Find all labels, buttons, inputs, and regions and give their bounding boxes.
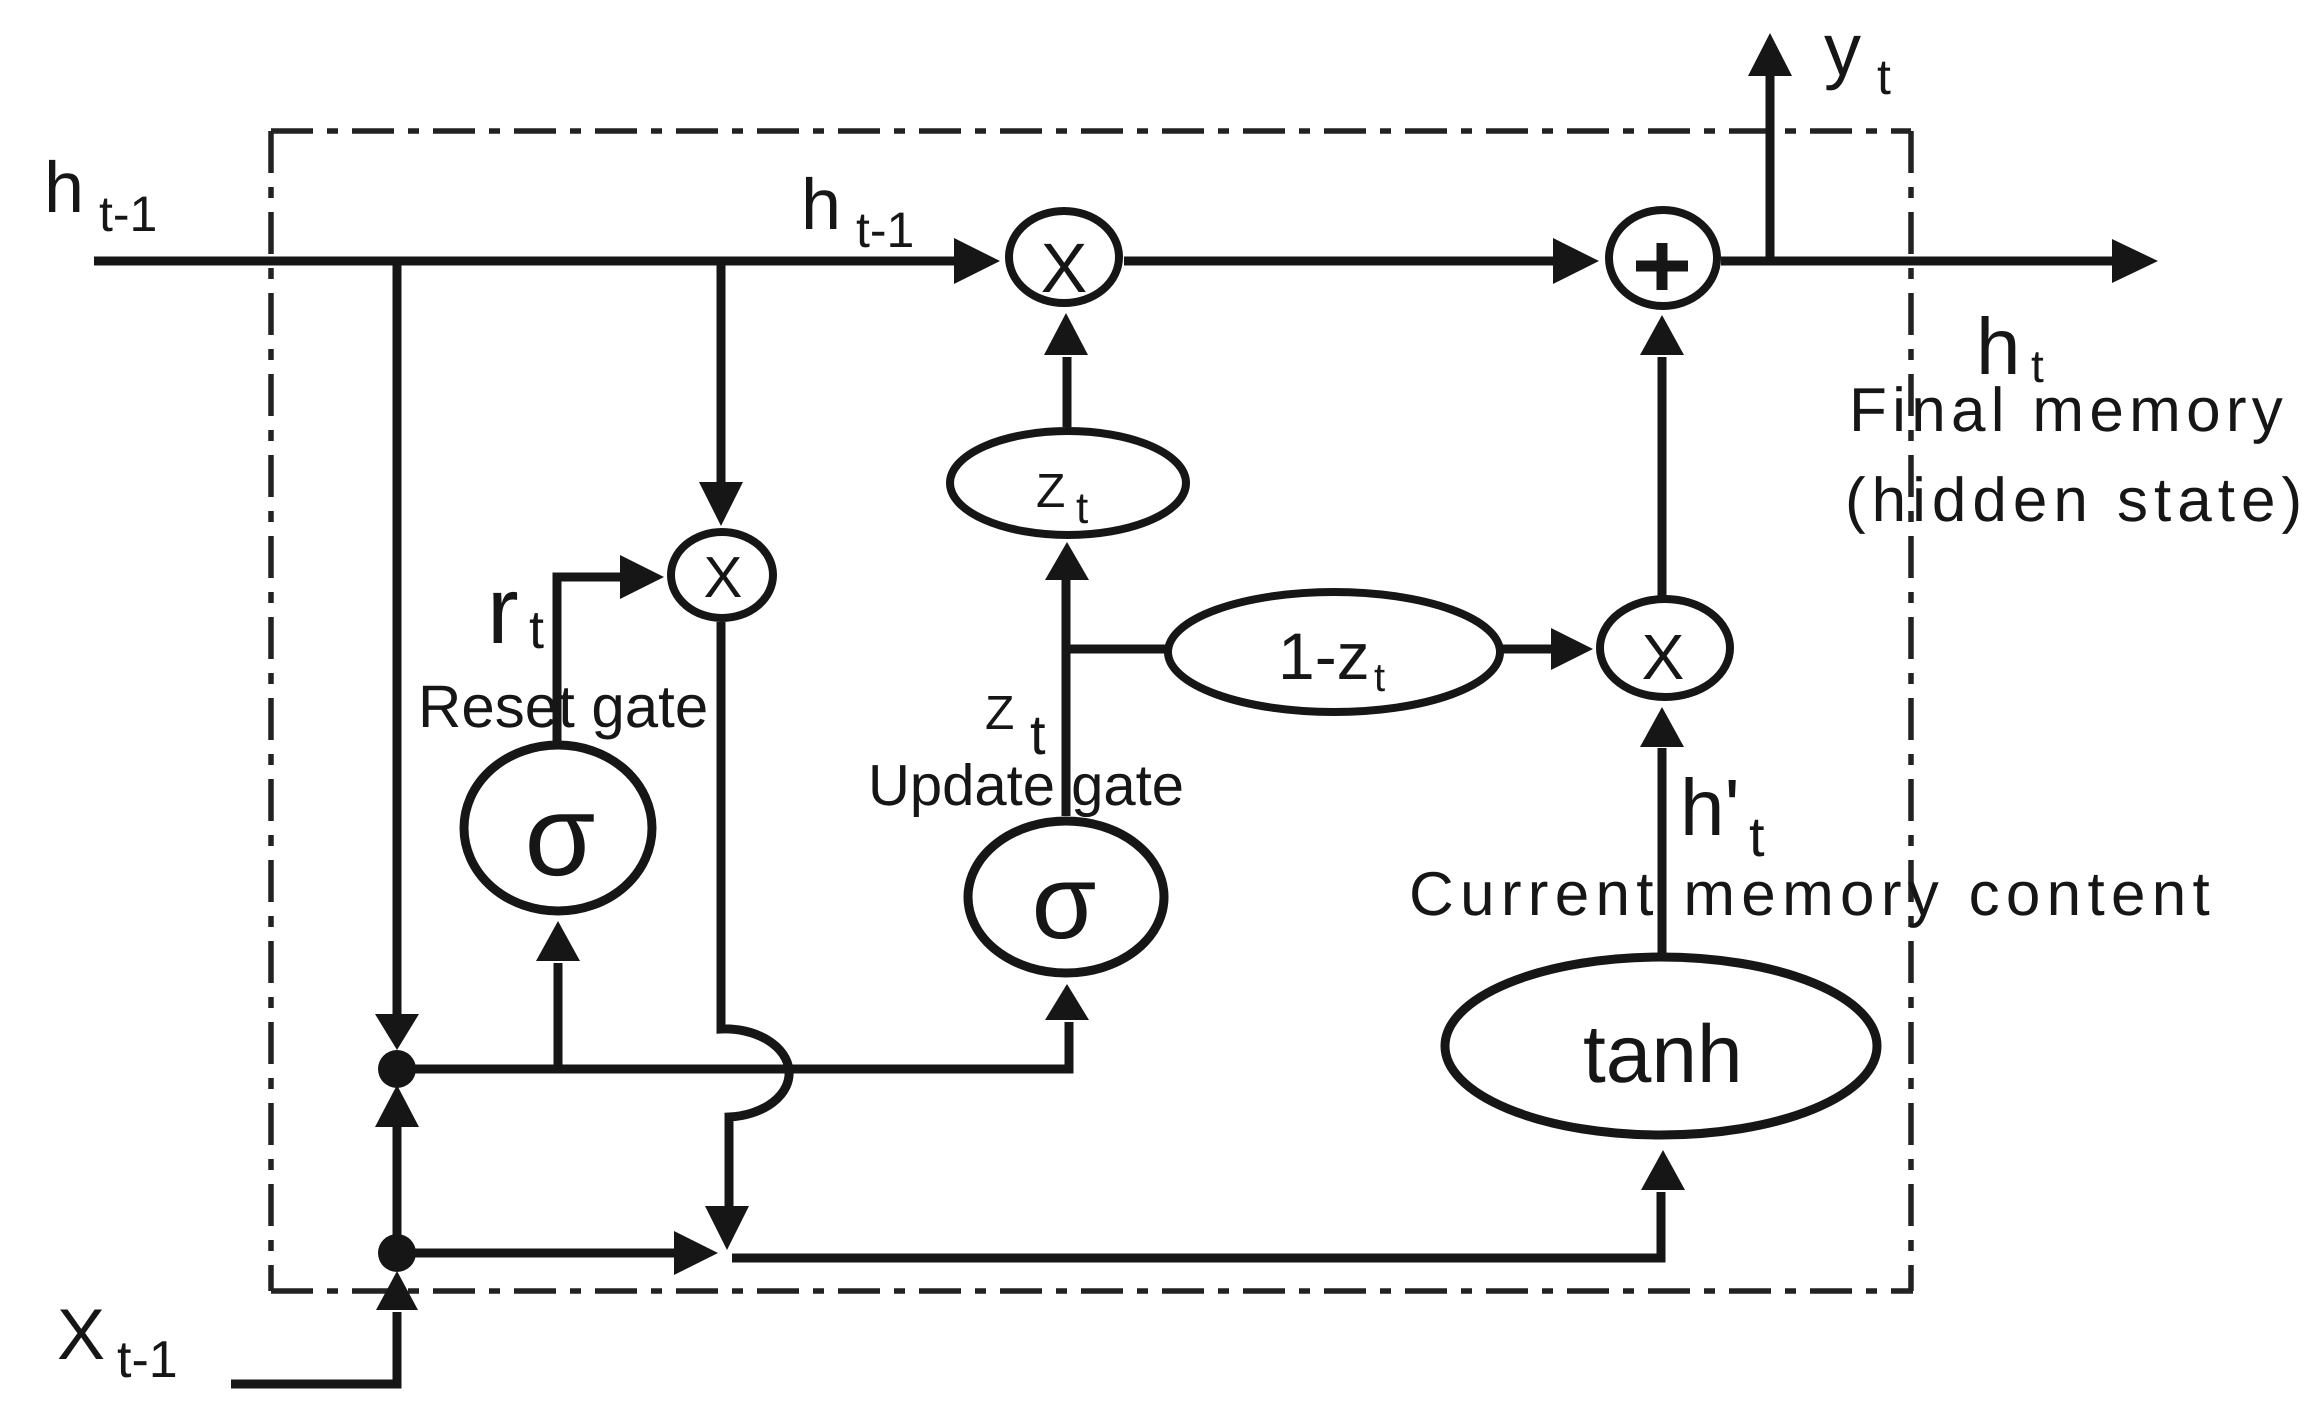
svg-text:h: h xyxy=(44,148,84,228)
svg-text:t: t xyxy=(1749,805,1765,868)
svg-text:t: t xyxy=(529,600,544,660)
svg-text:t: t xyxy=(1374,656,1385,700)
svg-text:X: X xyxy=(704,545,743,610)
svg-text:σ: σ xyxy=(525,772,596,900)
svg-text:r: r xyxy=(487,558,519,664)
svg-text:t-1: t-1 xyxy=(856,202,914,258)
svg-text:Update gate: Update gate xyxy=(868,753,1184,818)
svg-text:t-1: t-1 xyxy=(117,1331,178,1389)
svg-text:t: t xyxy=(1076,484,1088,533)
svg-text:Z: Z xyxy=(1036,465,1065,518)
svg-text:X: X xyxy=(57,1295,105,1375)
svg-text:y: y xyxy=(1824,8,1861,91)
svg-text:X: X xyxy=(1642,621,1685,693)
svg-text:Reset gate: Reset gate xyxy=(418,673,708,740)
svg-text:Final memory: Final memory xyxy=(1849,376,2288,445)
svg-text:Current memory content: Current memory content xyxy=(1409,860,2216,929)
svg-text:(hidden state): (hidden state) xyxy=(1845,466,2308,535)
svg-text:σ: σ xyxy=(1032,844,1097,961)
svg-text:1-z: 1-z xyxy=(1278,619,1370,693)
svg-text:Z: Z xyxy=(985,687,1014,740)
svg-text:t: t xyxy=(1877,49,1891,105)
svg-text:h: h xyxy=(801,165,841,245)
svg-text:tanh: tanh xyxy=(1583,1009,1743,1100)
svg-text:h': h' xyxy=(1680,763,1740,852)
svg-text:X: X xyxy=(1041,229,1088,307)
svg-text:t-1: t-1 xyxy=(99,186,157,242)
